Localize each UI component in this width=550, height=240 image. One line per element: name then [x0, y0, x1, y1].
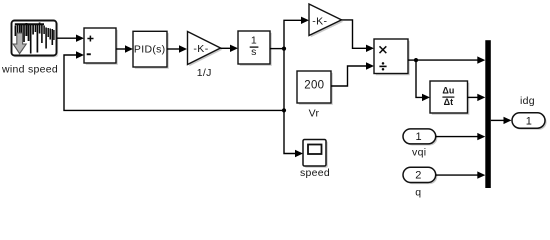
junction J2 — [414, 58, 418, 62]
svg-text:PID(s): PID(s) — [134, 43, 166, 55]
svg-text:1: 1 — [526, 115, 532, 127]
integrator U2 (1/s) — [238, 31, 272, 66]
svg-text:200: 200 — [304, 80, 324, 92]
input port P2 (q) — [403, 167, 437, 184]
svg-text:vqi: vqi — [412, 147, 426, 159]
wire: junction J3 down to scope — [284, 110, 303, 157]
input port P1 (vqi) — [403, 129, 437, 146]
wire: vqi to mux input 3 — [436, 133, 486, 140]
gain G2 (-K- top) — [309, 4, 343, 37]
wire: sum to PID — [116, 45, 133, 52]
wire: constant 200 to product divide input — [331, 62, 374, 86]
wire: junction down to derivative block — [416, 60, 430, 101]
svg-text:-K-: -K- — [312, 16, 327, 28]
wire: junction up to top gain — [284, 17, 309, 49]
sum block A1 — [84, 28, 118, 65]
junction J1 — [282, 47, 286, 51]
wire: gain to integrator — [221, 45, 239, 52]
constant K1 (200) — [297, 71, 333, 105]
wire: mux to output port — [491, 117, 512, 124]
svg-text:1/J: 1/J — [197, 67, 212, 79]
wire: junction to mux input 1 — [416, 56, 485, 63]
svg-text:speed: speed — [300, 167, 330, 179]
svg-text:Δt: Δt — [444, 97, 453, 107]
PID controller U1 — [133, 31, 169, 69]
wire: integrator output to junction — [270, 48, 284, 50]
wire: product output to junction — [408, 59, 416, 61]
gain G1 (1/J) — [188, 32, 223, 67]
svg-text:Δu: Δu — [442, 86, 454, 96]
output port P3 (idg) — [512, 113, 547, 130]
wire: top gain to product X input — [342, 20, 375, 52]
mux MX1 — [485, 40, 491, 188]
svg-text:s: s — [251, 46, 256, 58]
svg-text:1: 1 — [416, 131, 422, 143]
wire: source to sum + input — [57, 35, 84, 42]
junction J3 — [282, 108, 286, 112]
wire: PID to gain 1/J — [167, 45, 187, 52]
wire: feedback left to sum - input — [64, 51, 284, 110]
source block S1 (wind speed From-File block) — [12, 21, 59, 58]
svg-text:2: 2 — [415, 170, 421, 182]
wire: derivative to mux input 2 — [468, 94, 486, 101]
product/divide block M1 — [374, 39, 410, 75]
wire: feedback junction down from J1 — [283, 49, 285, 111]
svg-text:idg: idg — [520, 95, 535, 107]
scope block SC1 — [303, 140, 328, 168]
discrete derivative block D1 (du/dt) — [430, 81, 469, 115]
svg-text:Vr: Vr — [309, 108, 320, 120]
svg-text:wind speed: wind speed — [1, 64, 58, 76]
svg-text:-K-: -K- — [193, 43, 208, 55]
svg-text:q: q — [415, 186, 421, 198]
wire: q to mux input 4 — [436, 171, 486, 178]
svg-text:1: 1 — [251, 35, 257, 47]
